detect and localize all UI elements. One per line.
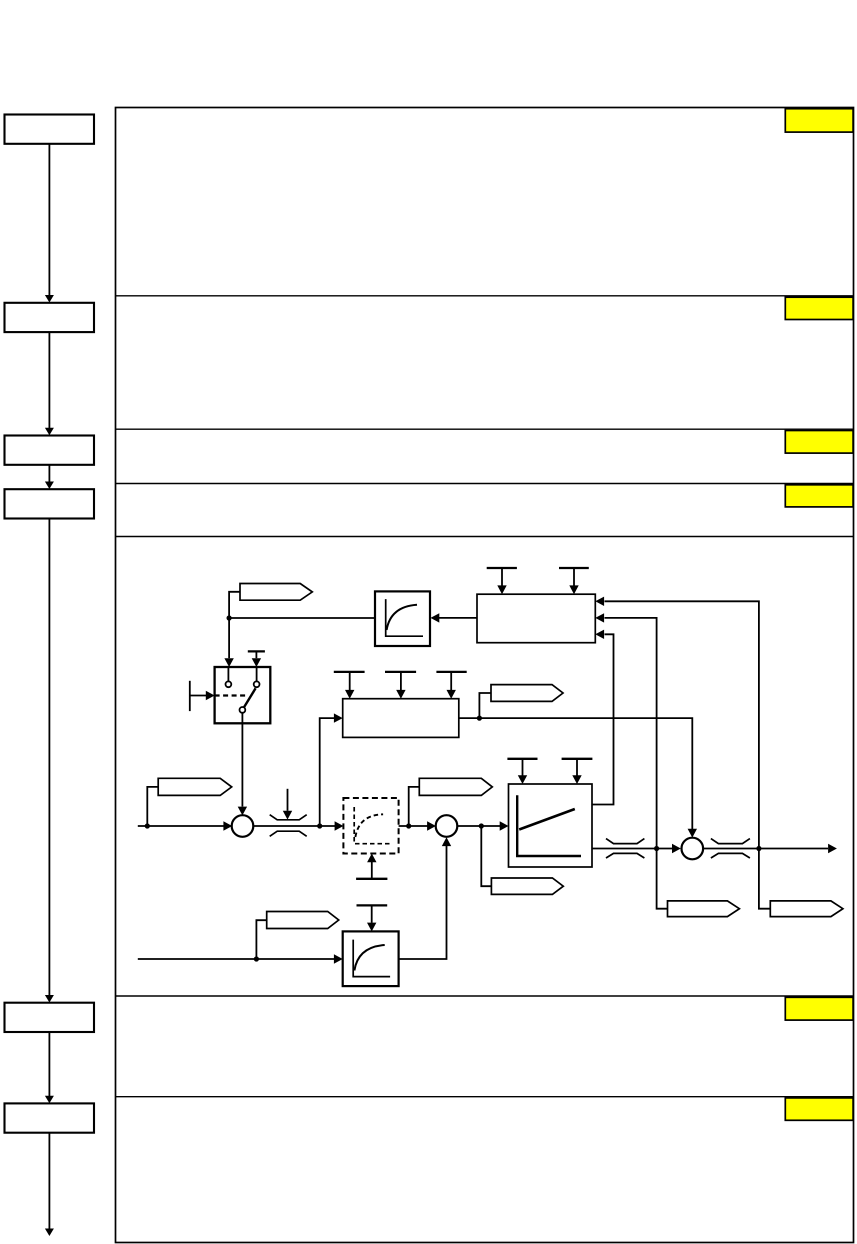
connector flag F4 lead	[409, 787, 420, 826]
flow box 4	[5, 489, 95, 518]
node H junction dot	[756, 846, 761, 851]
connector flag F5	[491, 878, 563, 894]
parameter input T-bar 1 on setpoint block	[487, 568, 517, 586]
connector flag F2 lead	[479, 693, 491, 718]
wire: feedback from ramp block upper output to setpoint block input 3	[592, 634, 614, 804]
flow box 1	[5, 115, 95, 144]
flow box 5	[5, 1003, 95, 1032]
flow box 6	[5, 1103, 95, 1132]
yellow label box section 6	[785, 997, 853, 1020]
node E junction dot	[406, 823, 411, 828]
node A junction dot	[227, 615, 232, 620]
flow arrow 4 to 5	[48, 519, 50, 996]
filter block (PT1) top	[375, 591, 430, 646]
wire: actual value input line (bottom)	[138, 958, 334, 960]
dashed suppression block	[343, 798, 398, 854]
node D junction dot	[317, 823, 322, 828]
wire: switch common down to summing point 1	[241, 713, 243, 807]
parameter input T-bar 2 on ramp block	[562, 759, 593, 776]
flow arrow exit	[48, 1133, 50, 1229]
yellow label box section 1	[785, 109, 853, 132]
connector flag F8	[770, 901, 843, 917]
setpoint calculation block (top right)	[477, 594, 595, 643]
flow box 3	[5, 436, 95, 465]
connector flag F3	[158, 778, 232, 795]
flow arrow 2 to 3	[48, 332, 50, 428]
wire: feedback from limited node to setpoint block input 2	[605, 618, 657, 849]
section divider 6	[116, 1096, 854, 1098]
connector flag F5 lead	[481, 826, 491, 886]
node C junction dot	[145, 823, 150, 828]
wire: feedback from output node to setpoint block input 1	[605, 601, 759, 848]
wire: ramp block output line	[592, 848, 672, 850]
wire: summing point 2 to ramp block	[457, 825, 500, 827]
section divider 5	[116, 995, 854, 997]
connector flag F1 lead	[229, 592, 240, 618]
section divider 2	[116, 428, 854, 430]
connector flag F6	[267, 912, 339, 929]
summing point 3	[682, 838, 704, 860]
wire: summing point 1 to dashed block	[253, 825, 335, 827]
parameter input T-bar above bottom filter block	[357, 905, 388, 922]
break symbol 3	[711, 839, 750, 858]
switch right contact	[254, 681, 260, 687]
wire: setpoint block output into filter block	[439, 617, 477, 619]
summing point 1	[232, 815, 254, 837]
switch control input with T-bar	[190, 681, 207, 711]
limit calculation block (middle)	[343, 699, 459, 738]
connector flag F7	[668, 901, 740, 917]
node F junction dot	[479, 823, 484, 828]
yellow label box section 2	[785, 297, 853, 319]
break symbol 2	[606, 839, 644, 858]
yellow label box section 3	[785, 431, 853, 454]
wire: node H down to connector flag F8	[759, 849, 770, 909]
wire: summing point 3 to output	[703, 848, 828, 850]
parameter input T-bar 2 on middle block	[385, 672, 416, 690]
switch select dashed line	[215, 694, 248, 696]
connector flag F2	[491, 685, 563, 702]
section divider 1	[116, 295, 854, 297]
connector flag F6 lead	[256, 920, 266, 959]
switch left contact stem	[227, 667, 229, 681]
wire: middle block output to summing point 3	[459, 718, 693, 829]
flow arrow 5 to 6	[48, 1032, 50, 1096]
yellow label box section 7	[785, 1098, 853, 1120]
section divider 4	[116, 536, 854, 538]
page frame	[116, 108, 854, 1243]
parameter input T-bar on switch	[248, 651, 265, 658]
selector switch box	[215, 667, 271, 723]
node B junction dot	[477, 716, 482, 721]
switch left contact	[226, 681, 232, 687]
parameter input T-bar 2 on setpoint block	[559, 568, 589, 586]
flow box 2	[5, 303, 95, 332]
wire: dashed block to summing point 2	[399, 825, 428, 827]
wire: filter output to junction A	[229, 617, 375, 619]
break symbol 1	[270, 815, 307, 837]
wire: main setpoint input line	[138, 825, 224, 827]
section divider 3	[116, 483, 854, 485]
wire: node G down to connector flag F7	[657, 849, 668, 909]
yellow label box section 4	[785, 485, 853, 507]
actual value filter block (PT1) bottom	[343, 931, 399, 986]
switch lever	[244, 688, 256, 707]
wire: main line riser into middle block	[320, 718, 334, 826]
flow arrow 1 to 2	[48, 145, 50, 296]
connector flag F1	[240, 584, 312, 601]
summing point 2	[436, 815, 458, 837]
ramp-function generator block	[509, 784, 593, 867]
parameter input T-bar 1 on ramp block	[507, 759, 537, 776]
wire: junction A down to switch	[228, 618, 230, 658]
wire: bottom filter output up to summing point 2	[399, 846, 447, 959]
connector flag F4	[419, 778, 492, 795]
parameter input T-bar 3 on middle block	[436, 672, 466, 690]
flow arrow 3 to 4	[48, 465, 50, 482]
connector flag F3 lead	[147, 787, 158, 826]
node G junction dot	[654, 846, 659, 851]
intervention arrow at break 1	[287, 789, 289, 811]
switch common contact	[240, 707, 246, 713]
node I junction dot	[254, 956, 259, 961]
parameter input T-bar below dashed block	[356, 862, 387, 879]
switch right contact stem	[256, 667, 258, 681]
parameter input T-bar 1 on middle block	[334, 672, 365, 690]
